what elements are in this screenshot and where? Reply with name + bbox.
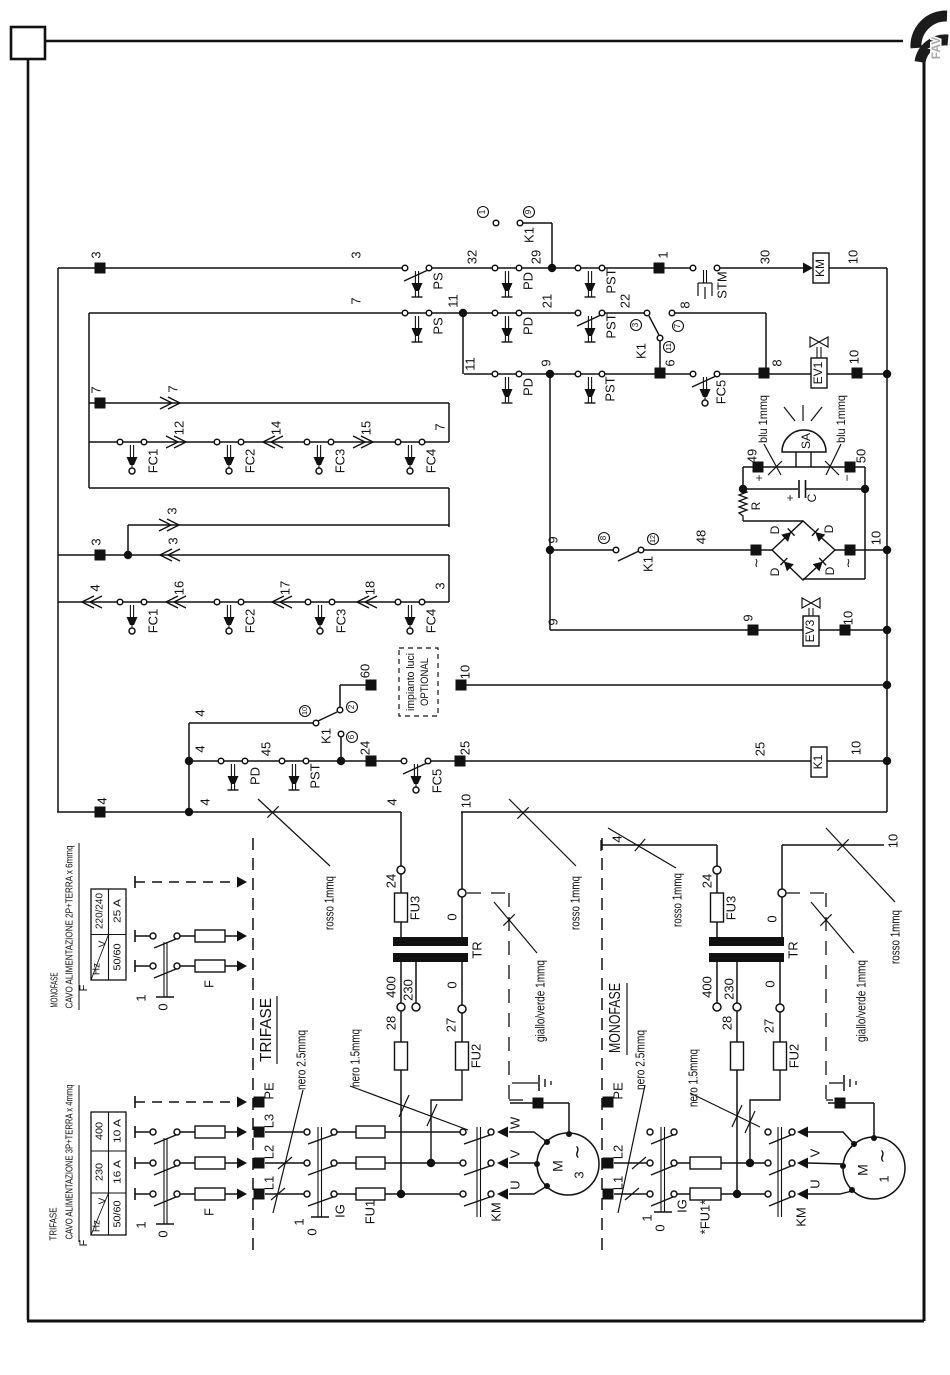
svg-text:45: 45 xyxy=(258,742,273,756)
svg-text:230: 230 xyxy=(721,978,736,1000)
svg-text:3: 3 xyxy=(348,251,363,258)
svg-text:22: 22 xyxy=(617,294,632,308)
svg-text:1: 1 xyxy=(655,251,670,258)
svg-text:FC5: FC5 xyxy=(713,380,728,405)
svg-text:PD: PD xyxy=(520,272,535,290)
svg-text:220/240: 220/240 xyxy=(95,893,106,929)
svg-text:6: 6 xyxy=(662,359,677,366)
svg-text:MONOFASE: MONOFASE xyxy=(50,972,61,1007)
svg-text:48: 48 xyxy=(693,530,708,544)
svg-text:16: 16 xyxy=(171,581,186,595)
svg-text:0: 0 xyxy=(304,1228,319,1235)
svg-text:27: 27 xyxy=(761,1019,776,1033)
svg-text:K1: K1 xyxy=(318,728,333,744)
svg-text:400: 400 xyxy=(95,1122,106,1140)
svg-text:4: 4 xyxy=(192,745,207,752)
svg-text:10: 10 xyxy=(457,665,472,679)
svg-text:L1: L1 xyxy=(261,1176,276,1190)
svg-text:4: 4 xyxy=(87,584,102,591)
svg-text:V: V xyxy=(507,1149,522,1158)
svg-text:1: 1 xyxy=(291,1218,306,1225)
svg-text:FC2: FC2 xyxy=(242,449,257,474)
svg-text:W: W xyxy=(507,1116,522,1129)
svg-text:TR: TR xyxy=(785,941,800,958)
svg-text:16 A: 16 A xyxy=(113,1160,124,1184)
svg-text:230: 230 xyxy=(400,979,415,1001)
svg-text:10: 10 xyxy=(846,350,861,364)
svg-text:K1: K1 xyxy=(640,556,655,572)
svg-text:F: F xyxy=(201,1208,216,1216)
svg-text:9: 9 xyxy=(545,618,560,625)
svg-text:3: 3 xyxy=(571,1171,586,1178)
svg-text:8: 8 xyxy=(769,359,784,366)
svg-text:K1: K1 xyxy=(521,227,536,243)
svg-text:50: 50 xyxy=(853,449,868,463)
svg-text:IG: IG xyxy=(674,1199,689,1213)
svg-text:28: 28 xyxy=(719,1016,734,1030)
svg-text:11: 11 xyxy=(462,357,477,371)
svg-text:7: 7 xyxy=(88,386,103,393)
svg-text:PST: PST xyxy=(602,376,617,401)
svg-text:10: 10 xyxy=(840,611,855,625)
svg-text:12: 12 xyxy=(171,421,186,435)
svg-text:FC3: FC3 xyxy=(333,609,348,634)
svg-text:∼: ∼ xyxy=(748,558,763,569)
svg-text:F: F xyxy=(78,984,90,991)
svg-text:STM: STM xyxy=(714,271,729,298)
svg-text:M: M xyxy=(855,1164,871,1176)
svg-text:7: 7 xyxy=(432,423,447,430)
svg-text:K1: K1 xyxy=(811,754,825,769)
svg-text:V: V xyxy=(98,940,109,947)
svg-text:400: 400 xyxy=(699,976,714,998)
svg-text:D: D xyxy=(768,525,782,534)
svg-text:IG: IG xyxy=(332,1204,347,1218)
svg-text:CAVO ALIMENTAZIONE 2P+TERRA x: CAVO ALIMENTAZIONE 2P+TERRA x 6mmq xyxy=(65,846,76,1009)
svg-text:KM: KM xyxy=(813,259,827,277)
svg-text:*FU1*: *FU1* xyxy=(697,1200,712,1235)
svg-text:L2: L2 xyxy=(261,1145,276,1159)
svg-text:27: 27 xyxy=(443,1018,458,1032)
svg-text:4: 4 xyxy=(197,798,212,805)
svg-text:PD: PD xyxy=(247,767,262,785)
svg-text:FU2: FU2 xyxy=(786,1044,801,1069)
svg-text:24: 24 xyxy=(357,741,372,755)
svg-text:rosso 1mmq: rosso 1mmq xyxy=(669,873,684,927)
svg-text:rosso 1mmq: rosso 1mmq xyxy=(567,876,582,930)
svg-text:nero 1.5mmq: nero 1.5mmq xyxy=(347,1029,362,1087)
svg-text:49: 49 xyxy=(744,449,759,463)
svg-text:9: 9 xyxy=(538,359,553,366)
svg-text:1: 1 xyxy=(133,994,148,1001)
svg-text:6: 6 xyxy=(347,734,356,739)
svg-text:10: 10 xyxy=(458,794,473,808)
svg-text:KM: KM xyxy=(488,1202,503,1222)
svg-text:D: D xyxy=(823,566,837,575)
svg-text:FU3: FU3 xyxy=(407,896,422,921)
svg-text:PE: PE xyxy=(261,1082,276,1100)
svg-text:1: 1 xyxy=(876,1175,891,1182)
svg-text:L3: L3 xyxy=(261,1114,276,1128)
svg-text:F: F xyxy=(78,1239,90,1246)
svg-text:9: 9 xyxy=(740,614,755,621)
svg-text:nero 2.5mmq: nero 2.5mmq xyxy=(293,1030,308,1090)
svg-text:15: 15 xyxy=(358,421,373,435)
svg-text:EV1: EV1 xyxy=(811,361,825,384)
svg-text:3: 3 xyxy=(165,537,180,544)
svg-text:32: 32 xyxy=(464,250,479,264)
svg-text:3: 3 xyxy=(432,582,447,589)
svg-text:blu 1mmq: blu 1mmq xyxy=(756,395,770,443)
svg-text:29: 29 xyxy=(528,250,543,264)
svg-text:21: 21 xyxy=(539,294,554,308)
svg-text:PD: PD xyxy=(520,317,535,335)
svg-text:7: 7 xyxy=(348,297,363,304)
svg-text:∼: ∼ xyxy=(567,1144,587,1159)
svg-text:18: 18 xyxy=(362,581,377,595)
svg-text:25 A: 25 A xyxy=(113,899,124,923)
svg-text:0: 0 xyxy=(444,913,459,920)
svg-text:L2: L2 xyxy=(610,1145,625,1159)
svg-text:U: U xyxy=(807,1179,822,1188)
svg-text:10: 10 xyxy=(848,741,863,755)
svg-text:+: + xyxy=(783,494,797,501)
svg-text:TRIFASE: TRIFASE xyxy=(49,1207,60,1240)
svg-text:1: 1 xyxy=(133,1221,148,1228)
svg-text:10: 10 xyxy=(845,250,860,264)
svg-text:10: 10 xyxy=(302,707,309,715)
svg-text:SA: SA xyxy=(799,433,813,449)
svg-text:L1: L1 xyxy=(610,1176,625,1190)
svg-text:FC4: FC4 xyxy=(423,449,438,474)
svg-text:−: − xyxy=(840,474,854,481)
svg-text:PE: PE xyxy=(610,1082,625,1100)
svg-text:FC1: FC1 xyxy=(145,609,160,634)
svg-text:FU3: FU3 xyxy=(723,896,738,921)
svg-text:giallo/verde 1mmq: giallo/verde 1mmq xyxy=(854,960,868,1042)
svg-text:rosso 1mmq: rosso 1mmq xyxy=(887,910,902,964)
svg-text:D: D xyxy=(768,567,782,576)
svg-text:PST: PST xyxy=(603,313,618,338)
svg-text:0: 0 xyxy=(652,1224,667,1231)
svg-text:PST: PST xyxy=(603,268,618,293)
svg-text:3: 3 xyxy=(88,538,103,545)
svg-text:17: 17 xyxy=(277,581,292,595)
svg-text:11: 11 xyxy=(445,294,460,308)
svg-text:PD: PD xyxy=(520,378,535,396)
svg-text:CAVO ALIMENTAZIONE 3P+TERRA x: CAVO ALIMENTAZIONE 3P+TERRA x 4mmq xyxy=(65,1085,76,1240)
svg-text:V: V xyxy=(98,1197,109,1204)
svg-text:10 A: 10 A xyxy=(113,1119,124,1143)
svg-text:M: M xyxy=(550,1160,566,1172)
svg-text:9: 9 xyxy=(545,536,560,543)
svg-text:400: 400 xyxy=(383,976,398,998)
svg-text:+: + xyxy=(752,474,766,481)
svg-text:4: 4 xyxy=(94,797,109,804)
svg-text:10: 10 xyxy=(885,834,900,848)
svg-text:FAV: FAV xyxy=(929,37,943,59)
svg-text:∼: ∼ xyxy=(872,1148,892,1163)
svg-text:V: V xyxy=(807,1148,822,1157)
svg-text:∼: ∼ xyxy=(840,558,855,569)
svg-text:R: R xyxy=(749,501,763,510)
svg-text:blu 1mmq: blu 1mmq xyxy=(834,395,848,443)
svg-text:3: 3 xyxy=(164,507,179,514)
svg-text:FC3: FC3 xyxy=(332,449,347,474)
svg-text:11: 11 xyxy=(666,343,673,351)
svg-text:24: 24 xyxy=(699,874,714,888)
svg-text:7: 7 xyxy=(165,385,180,392)
svg-text:C: C xyxy=(805,493,819,502)
svg-text:12: 12 xyxy=(650,535,657,543)
svg-text:60: 60 xyxy=(357,664,372,678)
svg-text:50/60: 50/60 xyxy=(113,1200,124,1227)
svg-text:giallo/verde 1mmq: giallo/verde 1mmq xyxy=(533,960,547,1042)
svg-text:rosso 1mmq: rosso 1mmq xyxy=(321,876,336,930)
svg-text:10: 10 xyxy=(868,531,883,545)
svg-text:28: 28 xyxy=(383,1016,398,1030)
svg-text:K1: K1 xyxy=(633,343,648,359)
svg-text:0: 0 xyxy=(764,915,779,922)
svg-text:9: 9 xyxy=(524,209,533,214)
svg-text:FC5: FC5 xyxy=(429,769,444,794)
svg-text:25: 25 xyxy=(457,741,472,755)
svg-text:D: D xyxy=(822,524,836,533)
svg-text:1: 1 xyxy=(639,1214,654,1221)
svg-text:nero 1.5mmq: nero 1.5mmq xyxy=(685,1049,700,1107)
svg-text:7: 7 xyxy=(673,323,682,328)
svg-text:F: F xyxy=(201,980,216,988)
svg-text:EV3: EV3 xyxy=(803,619,817,642)
svg-text:0: 0 xyxy=(155,1230,170,1237)
svg-text:FC2: FC2 xyxy=(242,609,257,634)
svg-text:FU2: FU2 xyxy=(468,1044,483,1069)
svg-text:24: 24 xyxy=(383,874,398,888)
svg-text:OPTIONAL: OPTIONAL xyxy=(419,658,431,706)
svg-text:0: 0 xyxy=(444,981,459,988)
svg-text:8: 8 xyxy=(677,301,692,308)
svg-text:impianto luci: impianto luci xyxy=(405,653,417,711)
svg-text:Hz: Hz xyxy=(92,963,103,975)
svg-text:PS: PS xyxy=(430,317,445,335)
svg-text:TR: TR xyxy=(469,941,484,958)
svg-text:14: 14 xyxy=(268,421,283,435)
svg-text:PST: PST xyxy=(307,763,322,788)
svg-text:30: 30 xyxy=(757,250,772,264)
svg-text:25: 25 xyxy=(752,742,767,756)
svg-text:8: 8 xyxy=(599,535,608,540)
svg-text:FC4: FC4 xyxy=(423,609,438,634)
svg-text:Hz: Hz xyxy=(92,1220,103,1232)
svg-text:1: 1 xyxy=(478,209,487,214)
svg-text:4: 4 xyxy=(192,709,207,716)
svg-text:230: 230 xyxy=(95,1163,106,1181)
svg-text:4: 4 xyxy=(384,798,399,805)
svg-text:2: 2 xyxy=(347,704,356,709)
svg-text:50/60: 50/60 xyxy=(113,943,124,970)
svg-text:U: U xyxy=(507,1180,522,1189)
svg-text:PS: PS xyxy=(430,272,445,290)
svg-text:nero 2.5mmq: nero 2.5mmq xyxy=(632,1030,647,1090)
svg-text:3: 3 xyxy=(88,251,103,258)
svg-text:0: 0 xyxy=(155,1003,170,1010)
svg-text:FC1: FC1 xyxy=(145,449,160,474)
svg-text:FU1: FU1 xyxy=(362,1200,377,1225)
svg-text:MONOFASE: MONOFASE xyxy=(607,983,624,1053)
svg-text:TRIFASE: TRIFASE xyxy=(258,998,275,1062)
svg-text:0: 0 xyxy=(762,980,777,987)
svg-text:KM: KM xyxy=(793,1207,808,1227)
svg-text:3: 3 xyxy=(631,322,640,327)
